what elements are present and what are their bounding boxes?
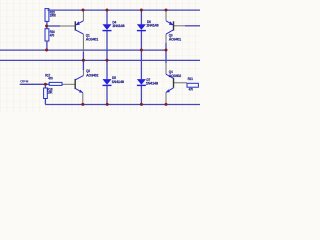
svg-text:10K: 10K <box>47 89 52 94</box>
svg-text:1N4148: 1N4148 <box>112 79 125 84</box>
svg-text:AO3402: AO3402 <box>169 73 182 78</box>
svg-text:1N4148: 1N4148 <box>112 23 125 28</box>
svg-text:1N4148: 1N4148 <box>146 81 159 86</box>
svg-text:R21: R21 <box>188 76 194 81</box>
svg-text:470: 470 <box>50 33 55 38</box>
svg-text:470: 470 <box>189 87 194 92</box>
svg-text:AO3401: AO3401 <box>169 36 182 41</box>
svg-text:AO3402: AO3402 <box>86 73 99 78</box>
svg-text:AO3401: AO3401 <box>86 36 99 41</box>
svg-text:100K: 100K <box>50 12 56 17</box>
svg-text:OFH: OFH <box>20 80 28 84</box>
svg-text:470: 470 <box>48 76 53 81</box>
svg-text:1N4148: 1N4148 <box>146 22 159 27</box>
